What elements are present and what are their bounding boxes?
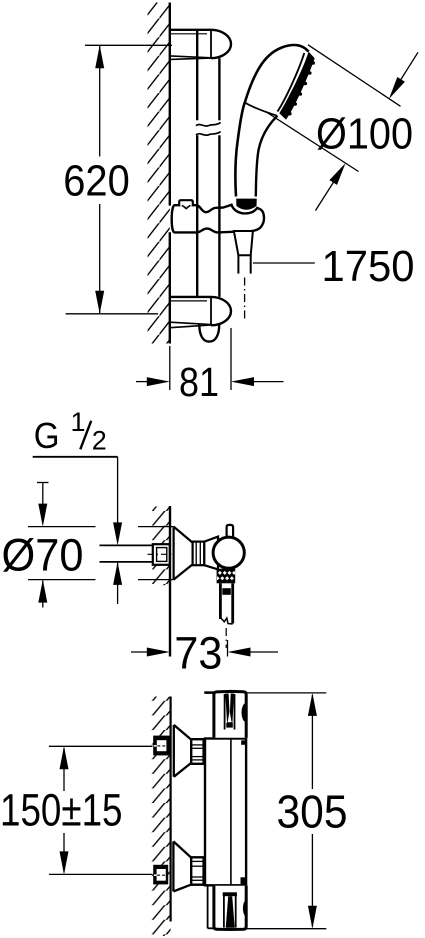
- valve escutcheon cone: [174, 527, 193, 580]
- rail break symbol: [196, 122, 221, 135]
- bottom supply hex nut: [153, 865, 168, 885]
- spray face line: [278, 53, 305, 112]
- top supply ribbed ring: [191, 739, 203, 764]
- rail tube: [197, 31, 219, 342]
- top supply escutcheon: [174, 725, 191, 777]
- leader 1750: [253, 262, 315, 264]
- wall line middle drawing: [169, 506, 171, 657]
- valve ribbed ring: [193, 542, 205, 566]
- wall hatching bottom drawing: [152, 697, 171, 937]
- dimension 81: [136, 328, 284, 390]
- black marks on body edge: [241, 740, 246, 745]
- holder lock button: [179, 200, 193, 206]
- svg-text:150±15: 150±15: [0, 784, 123, 835]
- wall hatching top drawing: [148, 3, 170, 344]
- hose outlet below holder: [234, 231, 253, 319]
- hose centerline: [244, 278, 246, 319]
- supply pipe lines: [100, 545, 154, 562]
- dimension 305: [246, 693, 326, 929]
- svg-text:1: 1: [71, 407, 86, 437]
- dimension 620: [66, 45, 172, 314]
- dimension diameter 70: [28, 483, 174, 608]
- dimension 150 plus/minus 15: [49, 746, 153, 874]
- valve knob circle: [213, 537, 244, 568]
- svg-text:620: 620: [63, 157, 130, 206]
- valve outlet pipe: [220, 583, 232, 648]
- svg-text:Ø100: Ø100: [316, 110, 413, 159]
- svg-text:Ø70: Ø70: [2, 530, 84, 581]
- svg-text:73: 73: [174, 628, 222, 679]
- top supply hex nut: [153, 736, 170, 756]
- svg-text:1750: 1750: [322, 242, 415, 291]
- dimension 73: [131, 640, 278, 657]
- G 1/2 leader with arrows: [113, 457, 122, 604]
- spray face dark band: [279, 52, 314, 120]
- thermostat body: [205, 739, 246, 886]
- grip dark band: [236, 199, 257, 210]
- wall line bottom drawing: [170, 697, 172, 922]
- top rail bracket: [170, 30, 231, 60]
- label G 1/2: [33, 407, 118, 457]
- bottom supply ribbed ring: [191, 857, 203, 884]
- thermostat top knob: [204, 691, 246, 737]
- hand shower: [235, 45, 315, 210]
- shower holder / glider on rail: [172, 200, 264, 232]
- wall line top drawing: [169, 3, 171, 206]
- bottom supply escutcheon: [173, 841, 191, 891]
- valve neck: [204, 537, 218, 570]
- svg-text:305: 305: [277, 786, 348, 838]
- thermostat bottom knob: [208, 886, 247, 930]
- svg-text:2: 2: [92, 426, 107, 456]
- rail bottom end cap: [199, 325, 219, 342]
- svg-text:81: 81: [179, 359, 219, 405]
- svg-text:G: G: [34, 415, 60, 456]
- valve supply hex nut: [148, 544, 175, 565]
- dimension diameter 100: [266, 45, 419, 211]
- bottom rail bracket: [170, 297, 231, 328]
- valve outlet crosshatched nut: [217, 569, 236, 584]
- neck line: [245, 103, 277, 116]
- wall hatching middle drawing: [152, 507, 170, 586]
- valve top nub: [227, 525, 234, 539]
